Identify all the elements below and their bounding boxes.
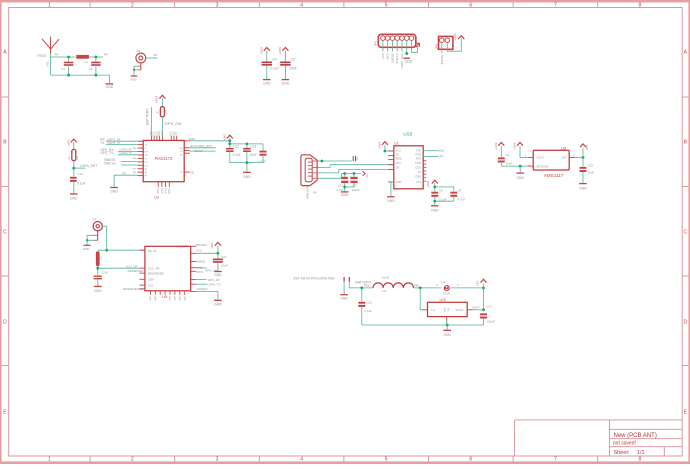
svg-text:L4: L4 — [382, 289, 386, 293]
svg-text:2: 2 — [131, 2, 134, 8]
svg-text:C13: C13 — [250, 145, 256, 149]
svg-text:RF: RF — [122, 172, 126, 176]
svg-text:VBUSET: VBUSET — [196, 243, 208, 247]
svg-text:LORA_RST: LORA_RST — [400, 53, 404, 68]
svg-text:VDD: VDD — [179, 141, 184, 143]
svg-text:GND: GND — [94, 289, 102, 293]
svg-text:GND: GND — [70, 196, 78, 200]
svg-text:SWCLK: SWCLK — [104, 161, 117, 165]
svg-text:GPS_TX: GPS_TX — [209, 282, 221, 286]
svg-text:VDD: VDD — [189, 137, 196, 141]
svg-text:C23: C23 — [486, 304, 492, 308]
svg-text:U10: U10 — [440, 298, 446, 302]
svg-text:GND: GND — [161, 188, 164, 194]
svg-text:0.1uF: 0.1uF — [77, 182, 85, 186]
svg-text:GND: GND — [243, 175, 251, 179]
svg-text:5: 5 — [385, 457, 388, 463]
svg-text:GND: GND — [387, 199, 395, 203]
svg-text:C3: C3 — [505, 153, 509, 157]
svg-text:RF: RF — [154, 53, 158, 57]
svg-text:BOOT0: BOOT0 — [440, 55, 444, 65]
svg-text:X1: X1 — [137, 49, 141, 53]
svg-text:RAK3172: RAK3172 — [155, 156, 173, 161]
svg-text:100nF: 100nF — [352, 188, 360, 192]
svg-text:VRESET: VRESET — [175, 245, 187, 249]
svg-text:7: 7 — [554, 2, 557, 8]
svg-text:C11: C11 — [221, 255, 227, 259]
svg-text:VIN: VIN — [562, 156, 567, 160]
svg-text:GND: GND — [46, 61, 49, 67]
svg-text:10uF: 10uF — [506, 161, 513, 165]
svg-text:RESERVED@1: RESERVED@1 — [123, 287, 144, 291]
svg-text:C15: C15 — [102, 270, 108, 274]
svg-text:NC: NC — [191, 170, 195, 174]
svg-text:VCC: VCC — [396, 149, 402, 153]
svg-text:X4: X4 — [313, 191, 317, 195]
svg-text:TX2: TX2 — [145, 155, 148, 157]
svg-text:C16: C16 — [338, 183, 344, 187]
svg-text:GND: GND — [83, 247, 91, 251]
svg-text:+3V3: +3V3 — [278, 47, 282, 55]
svg-text:+3V3: +3V3 — [66, 139, 70, 146]
svg-text:SS34: SS34 — [443, 291, 451, 295]
svg-text:10uF: 10uF — [250, 153, 257, 157]
svg-text:WAKE: WAKE — [197, 260, 205, 264]
svg-text:2: 2 — [131, 457, 134, 463]
svg-text:ZST-XH-02-PIN-LONG-PAD: ZST-XH-02-PIN-LONG-PAD — [294, 277, 336, 281]
svg-text:UART2_TX: UART2_TX — [120, 152, 133, 155]
svg-text:GND: GND — [444, 307, 446, 312]
svg-text:GND: GND — [130, 78, 138, 82]
svg-text:GND: GND — [516, 176, 524, 180]
svg-text:C: C — [683, 230, 687, 236]
svg-text:10uF: 10uF — [221, 264, 228, 268]
svg-text:GND: GND — [214, 302, 222, 306]
svg-text:BOOT: BOOT — [195, 149, 204, 153]
svg-text:DCD: DCD — [415, 165, 421, 169]
svg-text:GND: GND — [155, 296, 157, 301]
svg-text:A1: A1 — [145, 168, 147, 171]
svg-text:C4: C4 — [272, 58, 276, 62]
svg-text:GND: GND — [110, 190, 118, 194]
svg-text:New (PCB ANT): New (PCB ANT) — [614, 433, 657, 439]
svg-text:+3V3: +3V3 — [426, 180, 430, 187]
svg-text:U3: U3 — [154, 196, 159, 200]
svg-text:+3V3: +3V3 — [260, 47, 264, 55]
svg-text:10K: 10K — [76, 155, 79, 160]
svg-text:RESERVED: RESERVED — [148, 271, 164, 275]
svg-text:P1: P1 — [145, 148, 147, 150]
svg-text:5: 5 — [385, 2, 388, 8]
svg-text:GND: GND — [396, 180, 402, 184]
svg-text:D4: D4 — [441, 281, 445, 285]
svg-text:1/1: 1/1 — [637, 450, 645, 456]
svg-text:VOUT: VOUT — [536, 156, 544, 160]
svg-text:+3V3: +3V3 — [222, 134, 226, 141]
svg-text:4: 4 — [300, 457, 303, 463]
svg-text:UART1_TX: UART1_TX — [107, 141, 120, 145]
svg-text:RXD: RXD — [416, 153, 422, 157]
svg-text:4: 4 — [300, 2, 303, 8]
svg-text:GPS_ON: GPS_ON — [205, 268, 218, 272]
svg-text:1: 1 — [48, 457, 51, 463]
svg-text:VOUT: VOUT — [455, 308, 463, 312]
svg-text:7: 7 — [554, 457, 557, 463]
svg-text:0.1uF: 0.1uF — [233, 153, 241, 157]
svg-text:BATTERY: BATTERY — [146, 108, 150, 125]
svg-text:3: 3 — [216, 2, 219, 8]
svg-text:RXD: RXD — [386, 53, 390, 59]
svg-text:SWCLK: SWCLK — [395, 53, 399, 63]
svg-text:D: D — [683, 320, 687, 326]
svg-text:+3V3: +3V3 — [494, 142, 498, 149]
svg-text:VCC_RF: VCC_RF — [148, 266, 160, 270]
svg-text:GND: GND — [405, 59, 413, 63]
svg-text:+5V: +5V — [367, 174, 369, 178]
svg-text:TXD: TXD — [381, 53, 385, 59]
svg-text:PB1: PB1 — [364, 284, 370, 288]
svg-text:LX: LX — [432, 308, 436, 312]
svg-text:C10: C10 — [587, 164, 593, 168]
svg-text:RX: RX — [439, 149, 444, 153]
svg-text:+5V: +5V — [476, 281, 480, 286]
svg-text:R232: R232 — [396, 157, 403, 161]
svg-text:C22: C22 — [367, 301, 373, 305]
svg-text:0.1uF: 0.1uF — [439, 197, 447, 201]
svg-text:3: 3 — [216, 457, 219, 463]
svg-text:EN: EN — [448, 308, 450, 311]
svg-text:100uF: 100uF — [487, 319, 496, 323]
svg-text:ION: ION — [161, 131, 164, 136]
svg-text:GND: GND — [282, 82, 290, 86]
svg-text:GND: GND — [263, 82, 271, 86]
svg-text:+5V: +5V — [585, 145, 589, 150]
svg-text:GND: GND — [179, 296, 181, 301]
svg-text:Sheet:: Sheet: — [614, 450, 630, 456]
svg-text:SDA: SDA — [148, 278, 154, 282]
svg-text:GND: GND — [175, 296, 177, 301]
svg-text:RF: RF — [55, 52, 59, 56]
svg-text:1: 1 — [48, 2, 51, 8]
svg-text:+3V3: +3V3 — [155, 96, 159, 104]
svg-text:C2: C2 — [89, 67, 93, 71]
svg-text:LORA_RST: LORA_RST — [80, 164, 97, 168]
svg-text:AMS1117: AMS1117 — [544, 173, 564, 178]
svg-text:6: 6 — [469, 2, 472, 8]
svg-text:4.7uF: 4.7uF — [457, 197, 465, 201]
svg-text:C17: C17 — [352, 183, 358, 187]
svg-text:TXD: TXD — [416, 149, 421, 153]
svg-text:VCC_RF: VCC_RF — [126, 264, 137, 268]
svg-text:RI: RI — [418, 170, 421, 174]
svg-text:GND: GND — [150, 296, 152, 301]
svg-text:JP2: JP2 — [434, 44, 438, 50]
svg-text:LORA_RST: LORA_RST — [196, 144, 212, 148]
svg-text:not saved!: not saved! — [613, 441, 636, 447]
svg-text:PB2: PB2 — [414, 284, 420, 288]
svg-text:+3V3: +3V3 — [378, 142, 382, 149]
svg-text:JP1: JP1 — [373, 41, 377, 47]
svg-text:V3: V3 — [396, 153, 400, 157]
svg-text:+3V3: +3V3 — [210, 243, 214, 250]
svg-text:BATTERY: BATTERY — [355, 280, 371, 284]
svg-text:0.1uF: 0.1uF — [271, 67, 280, 71]
svg-text:SWDIO: SWDIO — [390, 53, 394, 64]
svg-text:VOUT: VOUT — [472, 306, 480, 310]
svg-text:C5: C5 — [291, 58, 295, 62]
svg-text:RTS: RTS — [416, 157, 421, 161]
svg-text:4.7uF: 4.7uF — [258, 160, 266, 164]
svg-text:6: 6 — [469, 457, 472, 463]
svg-text:C1: C1 — [61, 67, 65, 71]
svg-text:GND: GND — [106, 85, 114, 89]
svg-text:GND: GND — [579, 186, 587, 190]
svg-text:RF_IN: RF_IN — [148, 249, 156, 253]
svg-text:GND@3: GND@3 — [197, 287, 208, 291]
svg-text:USB: USB — [403, 131, 412, 136]
svg-text:GND: GND — [443, 333, 451, 337]
svg-text:C14: C14 — [77, 172, 83, 176]
svg-text:GND: GND — [341, 193, 349, 197]
svg-text:C9: C9 — [457, 188, 461, 192]
svg-text:GND: GND — [184, 296, 186, 301]
svg-text:RX2: RX2 — [145, 152, 149, 154]
svg-text:GPS_ON: GPS_ON — [165, 121, 182, 126]
svg-text:10uH: 10uH — [382, 275, 389, 279]
svg-text:ADJ/GND: ADJ/GND — [536, 165, 548, 169]
svg-text:GND: GND — [340, 297, 348, 301]
svg-text:CT08: CT08 — [415, 161, 422, 165]
svg-text:A2: A2 — [145, 171, 147, 174]
svg-text:FEED: FEED — [38, 54, 47, 58]
svg-text:+3V3: +3V3 — [513, 142, 517, 149]
svg-text:1PPS: 1PPS — [196, 270, 203, 274]
svg-text:P2: P2 — [145, 158, 147, 160]
svg-text:SCL: SCL — [148, 283, 154, 287]
svg-text:GND: GND — [168, 188, 171, 194]
svg-text:C8: C8 — [439, 188, 443, 192]
svg-text:UD: UD — [396, 165, 400, 169]
svg-text:DSR: DSR — [416, 175, 422, 179]
svg-text:8: 8 — [639, 457, 642, 463]
svg-text:C: C — [3, 230, 7, 236]
svg-text:10K: 10K — [165, 109, 168, 114]
svg-text:GND: GND — [157, 188, 160, 194]
svg-text:UART1_RX: UART1_RX — [107, 137, 121, 141]
svg-text:GPS_TX: GPS_TX — [100, 151, 114, 155]
svg-text:X3: X3 — [93, 217, 97, 221]
svg-text:C: C — [457, 284, 459, 287]
svg-text:10uF: 10uF — [587, 170, 594, 174]
svg-text:8: 8 — [639, 2, 642, 8]
svg-text:10uF: 10uF — [289, 67, 297, 71]
svg-text:VCC: VCC — [196, 248, 202, 252]
svg-text:C12: C12 — [233, 145, 239, 149]
svg-text:U1: U1 — [394, 142, 398, 146]
svg-text:4.7uF: 4.7uF — [364, 309, 372, 313]
svg-text:CTS: CTS — [416, 180, 421, 184]
svg-text:RESERVED: RESERVED — [128, 269, 144, 273]
svg-text:L1: L1 — [85, 60, 89, 64]
svg-text:D: D — [3, 320, 7, 326]
svg-text:GND: GND — [165, 188, 168, 194]
svg-text:GND: GND — [214, 273, 222, 277]
svg-text:GND: GND — [170, 296, 172, 301]
svg-text:+3V3: +3V3 — [453, 33, 457, 40]
svg-text:MINI-USB: MINI-USB — [305, 186, 309, 198]
svg-text:U2: U2 — [561, 145, 567, 150]
svg-text:DIO: DIO — [145, 162, 149, 164]
svg-text:RF: RF — [104, 52, 108, 56]
svg-text:UCY: UCY — [396, 161, 402, 165]
svg-text:GND: GND — [431, 208, 439, 212]
